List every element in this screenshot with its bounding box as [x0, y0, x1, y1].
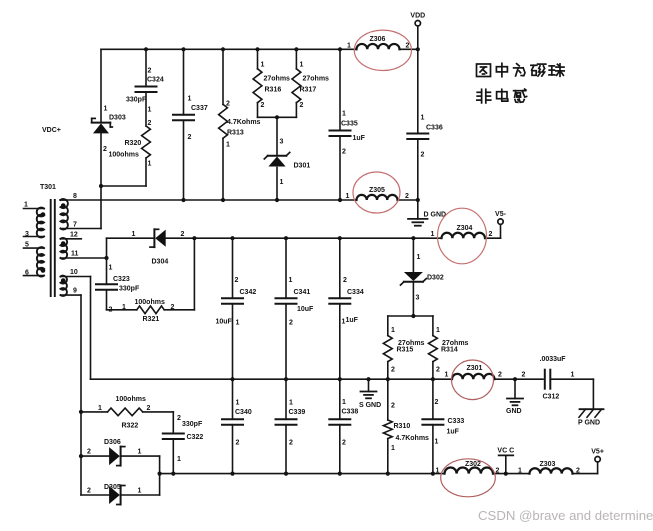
Z305 designator label [369, 187, 385, 194]
capacitor C334 [329, 298, 350, 304]
svg-text:C333: C333 [448, 418, 465, 425]
svg-text:Z305: Z305 [369, 187, 385, 194]
wire C337 bottom [183, 120, 185, 200]
svg-text:100ohms: 100ohms [135, 299, 165, 306]
capacitor C312 (horizontal) [545, 370, 551, 389]
C340 designator label [235, 409, 252, 416]
D306 pin 1 label [138, 449, 142, 456]
R322 pin 1 label [98, 405, 102, 412]
svg-text:330pF: 330pF [126, 97, 147, 104]
wire R315 top lead [387, 316, 389, 336]
pin 11 label [71, 251, 79, 258]
svg-text:V5+: V5+ [591, 449, 604, 456]
wire R322 left lead [81, 411, 108, 413]
junction D306 left node [79, 454, 83, 458]
junction R314 at lower rail [431, 377, 435, 381]
svg-text:1: 1 [445, 372, 449, 379]
R310 pin 2 label [391, 403, 395, 410]
svg-text:1: 1 [138, 449, 142, 456]
wire C323 top lead [106, 258, 108, 284]
R320 designator label [125, 140, 142, 147]
R317 pin 2 label [300, 102, 304, 109]
svg-text:Z302: Z302 [465, 461, 481, 468]
zener diode D304 [150, 229, 166, 247]
C335 value label 1uF [353, 135, 366, 142]
junction C337 bottom [181, 198, 185, 202]
C341 pin 2 label [289, 320, 293, 327]
wire C338 bottom lead [339, 425, 341, 474]
svg-text:2: 2 [181, 231, 185, 238]
svg-text:C323: C323 [113, 276, 130, 283]
transformer T301 secondary winding pins 8-7 and pin-7 wire [61, 199, 102, 229]
junction C335 bottom [338, 198, 342, 202]
svg-text:1: 1 [431, 231, 435, 238]
svg-text:Z301: Z301 [467, 365, 483, 372]
wire D301 bottom lead [276, 168, 278, 201]
svg-text:1: 1 [148, 107, 152, 114]
junction D303/R320 bottom node [99, 184, 103, 188]
wire D304 pin1 corner from pin 11 [107, 238, 155, 258]
svg-text:C342: C342 [240, 289, 257, 296]
wire D306 right lead [121, 455, 160, 457]
svg-text:C324: C324 [147, 77, 164, 84]
zener diode D306 [109, 447, 125, 466]
C336 pin 1 label [421, 115, 425, 122]
ferrite bead Z301 [452, 374, 495, 379]
D301 pin 1 label [280, 179, 284, 186]
wire D302 bottom lead [412, 283, 414, 316]
junction D302 bottom at join [411, 314, 415, 318]
R322 pin 2 label [147, 405, 151, 412]
capacitor C335 [330, 131, 351, 137]
svg-text:2: 2 [300, 102, 304, 109]
pin 8 label [73, 193, 77, 200]
svg-text:R310: R310 [394, 423, 411, 430]
junction C337 top [181, 47, 185, 51]
junction C340 bottom [230, 472, 234, 476]
junction C341 column at lower rail [284, 377, 288, 381]
C337 designator label [191, 105, 208, 112]
C342 pin 1 label [236, 320, 240, 327]
svg-text:2: 2 [391, 367, 395, 374]
R313 value label 4.7Kohms [227, 119, 261, 126]
svg-text:1: 1 [289, 277, 293, 284]
red highlight ellipse around Z302 [441, 459, 496, 497]
wire R321 loop bottom right [164, 309, 194, 311]
C335 pin 1 label [342, 111, 346, 118]
ferrite bead Z306 [357, 44, 400, 49]
svg-text:330pF: 330pF [119, 286, 140, 293]
wire R317 top lead [295, 49, 297, 69]
junction C334 top [338, 236, 342, 240]
svg-text:2: 2 [436, 367, 440, 374]
wire pin-8 rail (net to DGND) [60, 199, 357, 201]
wire C336 bottom lead [417, 139, 419, 200]
watermark CSDN [478, 508, 653, 523]
svg-text:2: 2 [148, 68, 152, 75]
C323 pin 2 label [109, 307, 113, 314]
R317 pin 1 label [300, 62, 304, 69]
terminal VDD [415, 21, 420, 26]
svg-text:1: 1 [435, 439, 439, 446]
R316 pin 1 label [261, 62, 265, 69]
resistor R313 [219, 104, 228, 138]
R320 pin 2 label [148, 120, 152, 127]
R314 pin 2 label [436, 367, 440, 374]
D306 pin 2 label [87, 449, 91, 456]
wire R314 bottom lead [432, 362, 434, 380]
svg-text:Z304: Z304 [457, 225, 473, 232]
ground DGND [408, 219, 428, 226]
svg-text:1: 1 [436, 468, 440, 475]
VDD label [410, 13, 425, 20]
wire R310 top lead [387, 379, 389, 420]
svg-text:5: 5 [25, 242, 29, 249]
resistor R322 [108, 408, 143, 416]
ground SGND [361, 392, 377, 399]
svg-text:2: 2 [343, 277, 347, 284]
Z303 designator label [540, 461, 556, 468]
C338 pin 1 label [342, 399, 346, 406]
svg-text:2: 2 [177, 415, 181, 422]
svg-text:1: 1 [518, 468, 522, 475]
C335 pin 2 label [342, 149, 346, 156]
svg-text:R314: R314 [441, 347, 458, 354]
D306 designator label [104, 439, 121, 446]
R315 designator label [397, 347, 414, 354]
C341 pin 1 label [289, 277, 293, 284]
svg-text:1: 1 [342, 319, 346, 326]
junction R321 riser at mid rail [192, 236, 196, 240]
wire C340 bottom lead [232, 425, 234, 474]
DGND label [424, 212, 447, 219]
svg-text:2: 2 [342, 440, 346, 447]
C340 pin 2 label [236, 440, 240, 447]
C323 designator label [113, 276, 130, 283]
wire D306-D305 right vertical [159, 456, 161, 495]
wire R322 to C322 corner [143, 412, 174, 434]
resistor R316 [253, 69, 262, 103]
svg-text:2: 2 [148, 120, 152, 127]
C335 designator label [341, 121, 358, 128]
R317 designator label [300, 87, 317, 94]
svg-text:100ohms: 100ohms [116, 396, 146, 403]
wire C312 to PGND riser [552, 379, 594, 409]
wire R310 bottom lead [387, 439, 389, 474]
svg-text:11: 11 [71, 251, 79, 258]
wire bottom rail Z302-Z303 link [493, 473, 530, 475]
svg-text:2: 2 [235, 277, 239, 284]
svg-text:P GND: P GND [578, 420, 600, 427]
D304 pin 2 label [181, 231, 185, 238]
C336 pin 2 label [421, 152, 425, 159]
wire C339 bottom lead [285, 425, 287, 474]
resistor R314 [429, 336, 438, 362]
red highlight ellipse around Z304 [438, 208, 487, 264]
C323 pin 1 label [109, 265, 113, 272]
ferrite bead Z303 [530, 468, 573, 473]
svg-text:C335: C335 [341, 121, 358, 128]
C322 pin 1 label [177, 456, 181, 463]
svg-text:2: 2 [522, 372, 526, 379]
svg-text:T301: T301 [40, 184, 56, 191]
wire C337 branch top [183, 49, 185, 115]
svg-text:2: 2 [496, 468, 500, 475]
D301 designator label [294, 163, 311, 170]
capacitor C336 [407, 134, 428, 140]
junction SGND stub [366, 377, 370, 381]
red highlight ellipse around Z305 [353, 172, 400, 213]
zener diode D302 [401, 272, 427, 285]
svg-text:1: 1 [148, 161, 152, 168]
Z301 pin 2 label [498, 372, 502, 379]
resistor R321 [137, 306, 164, 314]
svg-text:C340: C340 [235, 409, 252, 416]
wire R321 loop bottom left [107, 309, 137, 311]
svg-text:R313: R313 [227, 130, 244, 137]
junction D302 top [411, 236, 415, 240]
resistor R317 [292, 69, 301, 103]
Z301 pin 1 label [445, 372, 449, 379]
R322 designator label [122, 423, 139, 430]
C333 pin 1 label [435, 439, 439, 446]
svg-text:1: 1 [289, 400, 293, 407]
D301 pin 3 label [280, 139, 284, 146]
C339 pin 2 label [289, 440, 293, 447]
wire C341 top lead [285, 238, 287, 298]
svg-text:VC C: VC C [497, 448, 514, 455]
wire C342 top lead [232, 238, 234, 298]
svg-text:C339: C339 [289, 409, 306, 416]
wire D301 top lead [276, 117, 278, 155]
C334 pin 2 label [343, 277, 347, 284]
capacitor C333 [422, 419, 443, 425]
transformer T301 secondary winding pins 10-9 with lead wires [61, 276, 91, 296]
svg-text:D302: D302 [427, 275, 444, 282]
svg-text:2: 2 [103, 146, 107, 153]
svg-text:C341: C341 [294, 289, 311, 296]
C341 designator label [294, 289, 311, 296]
junction C324 top [144, 47, 148, 51]
ground GND [507, 399, 523, 406]
C324 designator label [147, 77, 164, 84]
Z303 pin 1 label [518, 468, 522, 475]
junction R317 top [294, 47, 298, 51]
C334 pin 1 label [342, 319, 346, 326]
capacitor C338 [329, 419, 350, 425]
svg-text:2: 2 [289, 320, 293, 327]
zener diode D303 [92, 118, 113, 133]
Z306 pin 2 label [406, 43, 410, 50]
R321 value label 100ohms [135, 299, 165, 306]
svg-text:.0033uF: .0033uF [540, 356, 567, 363]
V5- label [495, 211, 507, 218]
svg-text:1: 1 [421, 115, 425, 122]
chassis ground PGND [579, 409, 604, 417]
svg-text:330pF: 330pF [182, 421, 203, 428]
C322 pin 2 label [177, 415, 181, 422]
svg-text:27ohms: 27ohms [264, 76, 291, 83]
svg-text:1: 1 [391, 445, 395, 452]
wire pin-9 riser [80, 295, 82, 495]
svg-text:2: 2 [576, 468, 580, 475]
junction VCC stub [504, 472, 508, 476]
svg-text:1: 1 [342, 399, 346, 406]
svg-text:D304: D304 [152, 259, 169, 266]
svg-text:1: 1 [188, 96, 192, 103]
svg-text:GND: GND [506, 408, 522, 415]
junction DGND node [416, 198, 420, 202]
wire R321 riser to mid rail [193, 238, 195, 310]
R310 pin 1 label [391, 445, 395, 452]
wire C334 top lead [339, 238, 341, 298]
pin 5 label [25, 242, 29, 249]
svg-text:1: 1 [104, 106, 108, 113]
zener diode D301 [264, 153, 289, 167]
junction C335 top [338, 47, 342, 51]
capacitor C340 [222, 419, 243, 425]
svg-text:12: 12 [70, 231, 78, 238]
PGND label [578, 420, 600, 427]
svg-text:1: 1 [236, 400, 240, 407]
wire mid rail from D304 [166, 237, 442, 239]
junction C341 top [284, 236, 288, 240]
svg-text:1: 1 [436, 327, 440, 334]
VCC label [497, 448, 514, 455]
svg-text:CSDN @brave and determined: CSDN @brave and determined [478, 508, 653, 523]
svg-text:1: 1 [138, 488, 142, 495]
svg-text:1: 1 [417, 254, 421, 261]
R313 pin 2 label [226, 101, 230, 108]
annotation Chinese text line 1 (beads note) [477, 63, 565, 76]
C333 designator label [448, 418, 465, 425]
wire C322 bottom lead [172, 439, 174, 474]
R316 designator label [265, 87, 282, 94]
wire R313 bottom lead [222, 138, 224, 200]
svg-text:3: 3 [25, 231, 29, 238]
pin 10 label [70, 269, 78, 276]
C322 designator label [187, 434, 204, 441]
GND label [506, 408, 522, 415]
svg-text:C334: C334 [347, 289, 364, 296]
pin 1 label [24, 202, 28, 209]
resistor R320 [142, 126, 151, 158]
capacitor C323 [96, 284, 117, 290]
junction R315 at lower rail [386, 377, 390, 381]
R322 value label 100ohms [116, 396, 146, 403]
svg-text:R320: R320 [125, 140, 142, 147]
wire lower rail (GND net) [91, 378, 453, 380]
C340 pin 1 label [236, 400, 240, 407]
R316 pin 2 label [261, 102, 265, 109]
svg-text:1: 1 [226, 142, 230, 149]
C341 value label 10uF [297, 306, 314, 313]
transformer T301 core [51, 200, 55, 296]
wire Z303 pin2 to V5+ riser [573, 462, 598, 474]
capacitor C322 [163, 434, 184, 440]
D305 designator label [104, 484, 121, 491]
C312 pin 2 label [522, 372, 526, 379]
junction C322 bottom [171, 472, 175, 476]
R314 designator label [441, 347, 458, 354]
R321 designator label [143, 316, 160, 323]
svg-text:7: 7 [73, 222, 77, 229]
wire C341-C339 column [285, 304, 287, 419]
junction C342 top [230, 236, 234, 240]
R321 pin 2 label [171, 304, 175, 311]
C333 value label 1uF [447, 429, 460, 436]
wire D305 right lead [121, 494, 160, 496]
ferrite bead Z304 [442, 233, 486, 238]
Z306 designator label [370, 36, 386, 43]
D304 designator label [152, 259, 169, 266]
junction GND stub [513, 377, 517, 381]
svg-text:1: 1 [261, 62, 265, 69]
wire C324 branch top lead [145, 49, 147, 86]
capacitor C339 [276, 419, 297, 425]
svg-text:2: 2 [405, 193, 409, 200]
R314 value label 27ohms [442, 340, 469, 347]
wire C335 top lead [339, 49, 341, 130]
svg-text:2: 2 [489, 231, 493, 238]
svg-text:1uF: 1uF [447, 429, 460, 436]
svg-text:R321: R321 [143, 316, 160, 323]
svg-text:V5-: V5- [495, 211, 507, 218]
junction R313 bottom [221, 198, 225, 202]
junction C333 bottom [431, 472, 435, 476]
wire C323 bottom lead [106, 290, 108, 310]
svg-text:1: 1 [24, 202, 28, 209]
svg-text:2: 2 [87, 449, 91, 456]
C324 value label 330pF [126, 97, 147, 104]
R317 value label 27ohms [303, 76, 330, 83]
Z303 pin 2 label [576, 468, 580, 475]
C333 pin 2 label [435, 399, 439, 406]
D304 pin 1 label [132, 231, 136, 238]
node VDC+ label [42, 127, 61, 134]
svg-text:1: 1 [342, 111, 346, 118]
Z301 designator label [467, 365, 483, 372]
wire Z305 pin2 to DGND node [398, 199, 418, 201]
junction R316 top [255, 47, 259, 51]
resistor R315 [383, 336, 392, 362]
VCC terminal bar [499, 454, 514, 456]
Z304 pin 2 label [489, 231, 493, 238]
svg-text:2: 2 [261, 102, 265, 109]
svg-text:9: 9 [73, 288, 77, 295]
V5+ label [591, 449, 604, 456]
svg-text:D306: D306 [104, 439, 121, 446]
C337 pin 2 label [188, 134, 192, 141]
svg-text:1: 1 [280, 179, 284, 186]
ferrite bead Z305 [357, 195, 398, 200]
svg-text:D303: D303 [109, 115, 126, 122]
Z306 pin 1 label [347, 43, 351, 50]
wire D303-R320 bottom join [101, 185, 146, 187]
wire pin7 riser (crosses pin-8 rail, no connect) [100, 186, 102, 229]
svg-text:2: 2 [421, 152, 425, 159]
wire pin-10 riser [90, 277, 92, 380]
wire VDC+ branch top [100, 49, 102, 122]
svg-text:2: 2 [406, 43, 410, 50]
R320 value label 100ohms [109, 152, 139, 159]
svg-text:10uF: 10uF [216, 319, 233, 326]
svg-text:D301: D301 [294, 163, 311, 170]
svg-text:D GND: D GND [424, 212, 447, 219]
svg-text:C338: C338 [342, 409, 359, 416]
D305 pin 2 label [87, 488, 91, 495]
transformer T301 primary winding pins 5-6 [24, 247, 46, 276]
